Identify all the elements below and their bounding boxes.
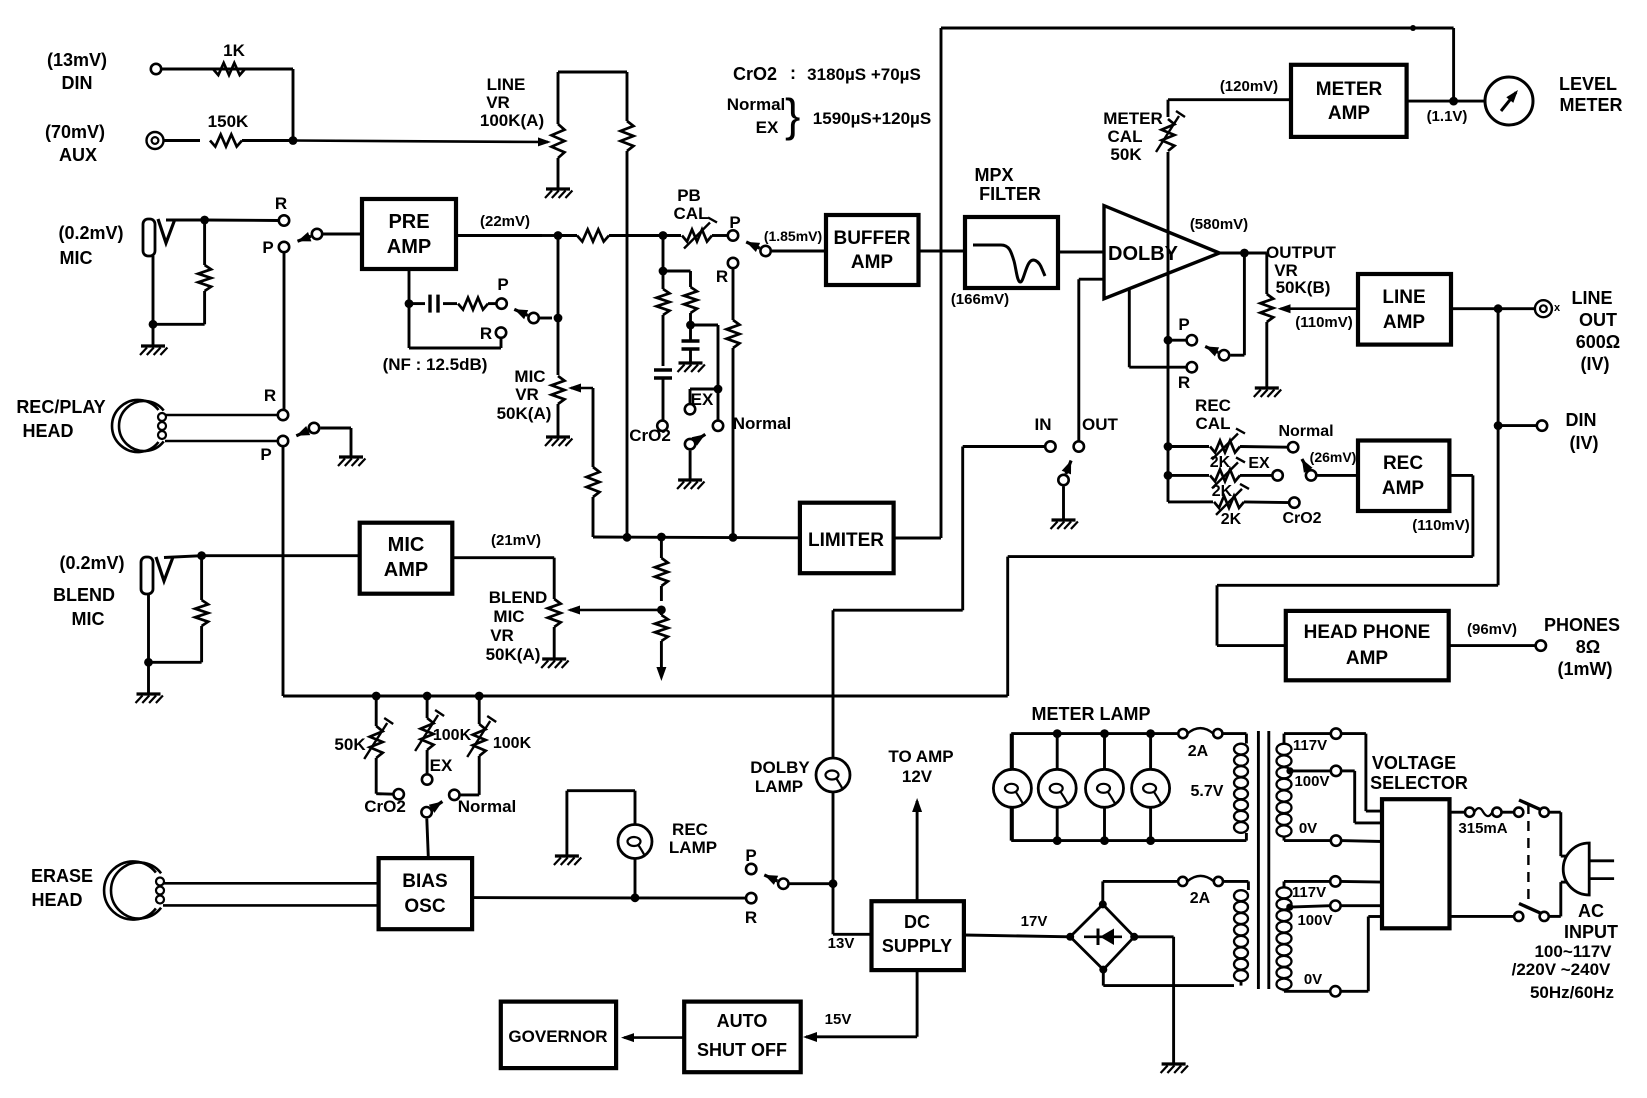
svg-text:CAL: CAL: [1196, 414, 1231, 433]
svg-text:150K: 150K: [208, 112, 249, 131]
svg-text:CrO2: CrO2: [1282, 510, 1321, 527]
svg-text:50Hz/60Hz: 50Hz/60Hz: [1530, 983, 1614, 1002]
svg-text:50K(A): 50K(A): [486, 645, 541, 664]
svg-text:REC: REC: [1383, 453, 1423, 474]
svg-text:PRE: PRE: [388, 211, 429, 233]
svg-text:(580mV): (580mV): [1190, 216, 1248, 233]
svg-text:Normal: Normal: [733, 414, 792, 433]
svg-text:MIC: MIC: [388, 534, 425, 556]
svg-text:(1.85mV): (1.85mV): [764, 228, 822, 244]
svg-text:GOVERNOR: GOVERNOR: [508, 1027, 607, 1046]
svg-text:LINE: LINE: [1571, 288, 1612, 308]
svg-text:Normal: Normal: [727, 95, 786, 114]
svg-text:/220V ~240V: /220V ~240V: [1512, 960, 1611, 979]
svg-text:MPX: MPX: [974, 165, 1013, 185]
svg-text:P: P: [729, 213, 740, 232]
svg-text:(NF : 12.5dB): (NF : 12.5dB): [383, 355, 488, 374]
svg-text:3180µS +70µS: 3180µS +70µS: [807, 65, 921, 84]
svg-text:DOLBY: DOLBY: [750, 758, 810, 777]
svg-text:R: R: [264, 386, 276, 405]
svg-text:(0.2mV): (0.2mV): [59, 553, 124, 573]
svg-text:EX: EX: [430, 756, 453, 775]
svg-text:MIC: MIC: [72, 609, 105, 629]
svg-text:(0.2mV): (0.2mV): [58, 223, 123, 243]
svg-text:DIN: DIN: [1566, 410, 1597, 430]
svg-text:50K: 50K: [334, 735, 366, 754]
svg-text:METER: METER: [1103, 109, 1163, 128]
svg-text:AMP: AMP: [1383, 312, 1426, 333]
svg-text:CAL: CAL: [1108, 127, 1143, 146]
svg-text:x: x: [1554, 302, 1561, 314]
svg-text:315mA: 315mA: [1458, 820, 1507, 837]
svg-text:TO AMP: TO AMP: [888, 747, 953, 766]
svg-text:MIC: MIC: [493, 607, 524, 626]
svg-text:15V: 15V: [825, 1011, 852, 1028]
svg-text:HEAD: HEAD: [22, 421, 73, 441]
svg-text:(1mW): (1mW): [1558, 659, 1613, 679]
svg-text:AMP: AMP: [387, 236, 431, 258]
svg-text:ERASE: ERASE: [31, 866, 93, 886]
svg-text:AMP: AMP: [384, 559, 428, 581]
svg-text:100~117V: 100~117V: [1534, 942, 1612, 961]
svg-text:EX: EX: [756, 118, 779, 137]
svg-text:R: R: [275, 194, 287, 213]
svg-text:VOLTAGE: VOLTAGE: [1372, 753, 1456, 773]
svg-text:METER: METER: [1316, 79, 1383, 100]
svg-text:REC: REC: [672, 820, 708, 839]
svg-text:2A: 2A: [1190, 890, 1211, 907]
svg-text:0V: 0V: [1299, 820, 1317, 837]
svg-text:100K: 100K: [493, 735, 532, 752]
svg-text:Normal: Normal: [458, 797, 517, 816]
svg-text:0V: 0V: [1304, 971, 1322, 988]
svg-text:R: R: [716, 267, 728, 286]
svg-text:1590µS+120µS: 1590µS+120µS: [813, 109, 931, 128]
svg-text:LEVEL: LEVEL: [1559, 74, 1617, 94]
svg-text:DC: DC: [904, 912, 930, 932]
svg-text:2K: 2K: [1221, 511, 1242, 528]
svg-text:FILTER: FILTER: [979, 184, 1041, 204]
svg-text:AMP: AMP: [1328, 103, 1371, 124]
svg-text:P: P: [745, 846, 756, 865]
svg-text:50K(A): 50K(A): [497, 404, 552, 423]
svg-text:REC: REC: [1195, 396, 1231, 415]
svg-text:(110mV): (110mV): [1295, 314, 1353, 331]
svg-text:IN: IN: [1035, 415, 1052, 434]
svg-text:R: R: [1178, 373, 1190, 392]
svg-text:2A: 2A: [1188, 743, 1209, 760]
svg-text:OUT: OUT: [1082, 415, 1119, 434]
svg-text:P: P: [260, 445, 271, 464]
svg-text:13V: 13V: [828, 935, 855, 952]
svg-text:(70mV): (70mV): [45, 122, 105, 142]
svg-text:R: R: [745, 908, 757, 927]
svg-text:OSC: OSC: [404, 896, 445, 917]
svg-text:17V: 17V: [1021, 913, 1048, 930]
svg-text::: :: [790, 63, 796, 83]
svg-text:AMP: AMP: [851, 252, 894, 273]
svg-text:(IV): (IV): [1581, 354, 1610, 374]
svg-text:}: }: [785, 89, 800, 141]
svg-text:Normal: Normal: [1278, 423, 1333, 440]
svg-text:(22mV): (22mV): [480, 213, 530, 230]
svg-text:600Ω: 600Ω: [1576, 332, 1620, 352]
svg-text:R: R: [480, 324, 492, 343]
svg-text:(166mV): (166mV): [951, 291, 1009, 308]
svg-text:50K: 50K: [1110, 145, 1142, 164]
svg-text:100V: 100V: [1294, 773, 1329, 790]
svg-text:METER LAMP: METER LAMP: [1032, 704, 1151, 724]
svg-text:BIAS: BIAS: [402, 871, 447, 892]
svg-text:1K: 1K: [223, 41, 245, 60]
svg-text:OUTPUT: OUTPUT: [1266, 243, 1337, 262]
svg-text:12V: 12V: [902, 767, 933, 786]
svg-text:INPUT: INPUT: [1564, 922, 1618, 942]
svg-text:(26mV): (26mV): [1310, 449, 1357, 465]
svg-text:50K(B): 50K(B): [1276, 278, 1331, 297]
svg-text:(13mV): (13mV): [47, 50, 107, 70]
svg-text:LAMP: LAMP: [755, 777, 803, 796]
svg-text:(21mV): (21mV): [491, 532, 541, 549]
svg-text:VR: VR: [490, 626, 514, 645]
svg-text:AUTO: AUTO: [717, 1011, 768, 1031]
svg-text:MIC: MIC: [60, 248, 93, 268]
svg-text:(IV): (IV): [1570, 433, 1599, 453]
svg-text:EX: EX: [1248, 455, 1270, 472]
svg-text:MIC: MIC: [514, 367, 545, 386]
svg-text:CAL: CAL: [674, 204, 709, 223]
svg-text:SUPPLY: SUPPLY: [882, 936, 952, 956]
svg-text:HEAD PHONE: HEAD PHONE: [1304, 622, 1431, 643]
svg-text:AMP: AMP: [1382, 478, 1425, 499]
svg-text:VR: VR: [486, 93, 510, 112]
svg-text:117V: 117V: [1292, 884, 1326, 901]
svg-text:SELECTOR: SELECTOR: [1370, 773, 1468, 793]
svg-text:LAMP: LAMP: [669, 838, 717, 857]
svg-text:117V: 117V: [1293, 737, 1327, 754]
svg-text:PHONES: PHONES: [1544, 615, 1620, 635]
svg-text:P: P: [262, 238, 273, 257]
svg-text:100V: 100V: [1297, 912, 1332, 929]
svg-text:P: P: [497, 275, 508, 294]
svg-text:(120mV): (120mV): [1220, 78, 1278, 95]
svg-text:100K: 100K: [433, 727, 472, 744]
svg-text:VR: VR: [515, 385, 539, 404]
svg-text:PB: PB: [677, 186, 701, 205]
svg-text:METER: METER: [1560, 95, 1623, 115]
svg-text:CrO2: CrO2: [364, 797, 406, 816]
svg-text:SHUT OFF: SHUT OFF: [697, 1040, 787, 1060]
svg-text:5.7V: 5.7V: [1191, 783, 1224, 800]
svg-text:REC/PLAY: REC/PLAY: [16, 397, 105, 417]
svg-text:LINE: LINE: [487, 75, 526, 94]
svg-text:CrO2: CrO2: [733, 64, 777, 84]
svg-text:LIMITER: LIMITER: [808, 530, 884, 551]
svg-text:LINE: LINE: [1382, 287, 1425, 308]
svg-text:(110mV): (110mV): [1412, 517, 1470, 534]
svg-text:(96mV): (96mV): [1467, 621, 1517, 638]
svg-text:CrO2: CrO2: [629, 426, 671, 445]
svg-text:P: P: [1178, 315, 1189, 334]
svg-text:EX: EX: [691, 390, 714, 409]
svg-text:DIN: DIN: [62, 73, 93, 93]
svg-text:AUX: AUX: [59, 145, 97, 165]
svg-text:HEAD: HEAD: [31, 890, 82, 910]
svg-text:100K(A): 100K(A): [480, 111, 544, 130]
svg-text:(1.1V): (1.1V): [1427, 108, 1468, 125]
svg-text:OUT: OUT: [1579, 310, 1617, 330]
svg-text:BUFFER: BUFFER: [833, 228, 910, 249]
svg-text:BLEND: BLEND: [53, 585, 115, 605]
svg-text:BLEND: BLEND: [489, 588, 548, 607]
svg-text:AC: AC: [1578, 901, 1604, 921]
svg-text:8Ω: 8Ω: [1576, 637, 1600, 657]
svg-text:AMP: AMP: [1346, 648, 1389, 669]
